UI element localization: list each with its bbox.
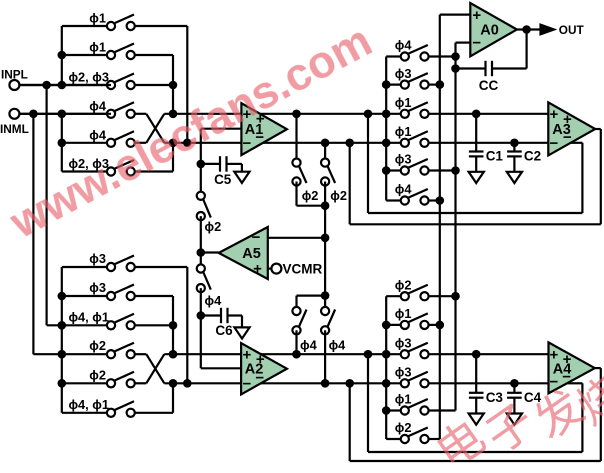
svg-text:ϕ2: ϕ2: [330, 188, 347, 203]
svg-text:+: +: [550, 106, 559, 123]
svg-text:ϕ4, ϕ1: ϕ4, ϕ1: [68, 397, 109, 412]
svg-text:ϕ2: ϕ2: [205, 219, 222, 234]
svg-text:INML: INML: [0, 122, 29, 136]
svg-text:ϕ3: ϕ3: [395, 66, 412, 81]
svg-text:+: +: [253, 260, 262, 277]
svg-text:ϕ4: ϕ4: [329, 337, 347, 352]
svg-text:ϕ2: ϕ2: [395, 277, 412, 292]
svg-text:A5: A5: [242, 246, 261, 262]
svg-text:ϕ1: ϕ1: [89, 40, 106, 55]
svg-text:ϕ1: ϕ1: [395, 392, 412, 407]
svg-text:ϕ4: ϕ4: [395, 38, 413, 53]
svg-text:A3: A3: [552, 122, 571, 138]
svg-text:ϕ3: ϕ3: [395, 335, 412, 350]
svg-text:ϕ4: ϕ4: [89, 98, 107, 113]
svg-text:−: −: [252, 229, 261, 246]
svg-text:ϕ3: ϕ3: [89, 280, 106, 295]
svg-text:ϕ2: ϕ2: [89, 338, 106, 353]
svg-text:ϕ4: ϕ4: [205, 293, 223, 308]
svg-text:+: +: [472, 7, 481, 24]
svg-text:ϕ3: ϕ3: [395, 152, 412, 167]
svg-text:A0: A0: [480, 23, 499, 39]
svg-text:C5: C5: [214, 172, 232, 187]
svg-text:ϕ2: ϕ2: [89, 367, 106, 382]
svg-text:OUT: OUT: [559, 23, 585, 37]
svg-text:ϕ1: ϕ1: [89, 11, 106, 26]
svg-text:INPL: INPL: [1, 68, 28, 82]
svg-text:C3: C3: [486, 390, 504, 405]
svg-text:ϕ1: ϕ1: [395, 95, 412, 110]
svg-text:ϕ4: ϕ4: [89, 127, 107, 142]
svg-text:ϕ4, ϕ1: ϕ4, ϕ1: [68, 309, 109, 324]
svg-text:CC: CC: [479, 78, 499, 93]
svg-text:A2: A2: [245, 362, 264, 378]
svg-text:VCMR: VCMR: [283, 261, 323, 276]
svg-text:C1: C1: [486, 149, 504, 164]
svg-text:ϕ3: ϕ3: [89, 251, 106, 266]
svg-text:ϕ4: ϕ4: [300, 337, 318, 352]
svg-text:C2: C2: [524, 149, 541, 164]
svg-text:C4: C4: [524, 390, 542, 405]
svg-text:A4: A4: [553, 362, 572, 378]
svg-text:−: −: [243, 375, 252, 392]
svg-text:ϕ2, ϕ3: ϕ2, ϕ3: [68, 70, 109, 85]
svg-text:ϕ3: ϕ3: [395, 365, 412, 380]
svg-text:ϕ1: ϕ1: [395, 306, 412, 321]
svg-text:ϕ1: ϕ1: [395, 124, 412, 139]
svg-text:ϕ4: ϕ4: [395, 182, 413, 197]
svg-text:ϕ2: ϕ2: [395, 420, 412, 435]
svg-text:ϕ2: ϕ2: [302, 188, 319, 203]
svg-text:C6: C6: [215, 323, 233, 338]
